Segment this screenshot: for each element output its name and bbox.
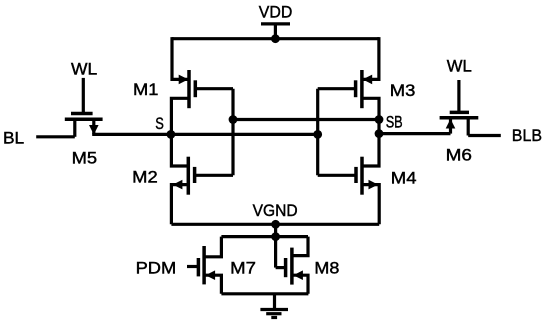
junction node SB — [375, 115, 384, 124]
wire S row — [92, 133, 318, 136]
junction SB column / M6 wire — [375, 129, 384, 138]
transistor M4 — [356, 157, 378, 195]
svg-text:WL: WL — [447, 57, 472, 76]
transistor M2 — [173, 157, 195, 195]
svg-text:S: S — [155, 114, 164, 133]
svg-text:M3: M3 — [390, 81, 416, 100]
wire M2 source to VGND rail — [171, 185, 188, 225]
wire right cross-coupling column (M3/M4 gates) — [316, 89, 319, 176]
wire ground rail — [221, 292, 308, 295]
junction M7/M8 drain wire — [271, 232, 280, 241]
power symbol VDD — [261, 24, 290, 39]
ground — [260, 294, 288, 318]
svg-text:VDD: VDD — [259, 3, 293, 22]
transistor M6 — [440, 80, 479, 136]
transistor M8 — [286, 248, 303, 285]
svg-text:M8: M8 — [314, 259, 339, 278]
wire M8 source to ground rail — [292, 275, 308, 294]
transistor M3 — [356, 70, 373, 108]
wire M3 drain / node SB column / M4 drain — [362, 98, 379, 166]
wire VDD rail to M1 source — [172, 37, 189, 79]
wire VGND rail — [171, 223, 379, 226]
wire M1 gate lead — [195, 87, 233, 90]
svg-text:BL: BL — [3, 129, 24, 148]
svg-text:VGND: VGND — [253, 201, 298, 220]
wire VDD rail to M3 source — [362, 37, 379, 79]
svg-text:WL: WL — [71, 59, 97, 78]
svg-text:M1: M1 — [133, 80, 158, 99]
wire node SB to M6 — [379, 132, 451, 135]
svg-text:M6: M6 — [446, 146, 472, 165]
junction VGND rail — [271, 220, 280, 229]
wire M7 drain — [204, 237, 221, 257]
svg-text:M5: M5 — [72, 149, 98, 168]
junction node S — [167, 130, 176, 139]
transistor M1 — [179, 70, 196, 108]
svg-text:M2: M2 — [132, 168, 158, 187]
wire M4 gate lead — [318, 174, 356, 177]
svg-text:M7: M7 — [230, 259, 256, 278]
junction VDD rail — [271, 34, 280, 43]
wire M8 gate lead — [276, 266, 286, 269]
wire VGND rail to M8 gate — [274, 224, 277, 267]
transistor M5 — [65, 78, 103, 137]
svg-text:BLB: BLB — [512, 126, 542, 145]
wire left cross-coupling column (M1/M2 gates) — [231, 89, 234, 176]
wire M1 drain / node S column / M2 drain — [171, 98, 189, 166]
junction right gate column / S row — [313, 130, 322, 139]
wire M4 source to VGND rail — [362, 185, 379, 225]
svg-text:PDM: PDM — [136, 259, 177, 278]
svg-text:SB: SB — [386, 113, 403, 132]
wire VDD rail — [172, 37, 379, 40]
wire M2 gate lead — [195, 174, 233, 177]
wire BL to M5 — [36, 135, 75, 138]
svg-text:M4: M4 — [391, 168, 417, 187]
junction left gate column / SB row — [229, 115, 238, 124]
wire M7/M8 drain rail — [221, 235, 308, 238]
transistor M7 — [198, 246, 215, 284]
wire PDM to M7 gate — [187, 265, 198, 268]
wire M8 drain — [292, 237, 308, 256]
wire M3 gate lead — [318, 87, 356, 90]
wire M7 source to ground rail — [204, 275, 221, 294]
wire SB row — [233, 118, 379, 121]
wire M6 to BLB — [468, 134, 501, 137]
